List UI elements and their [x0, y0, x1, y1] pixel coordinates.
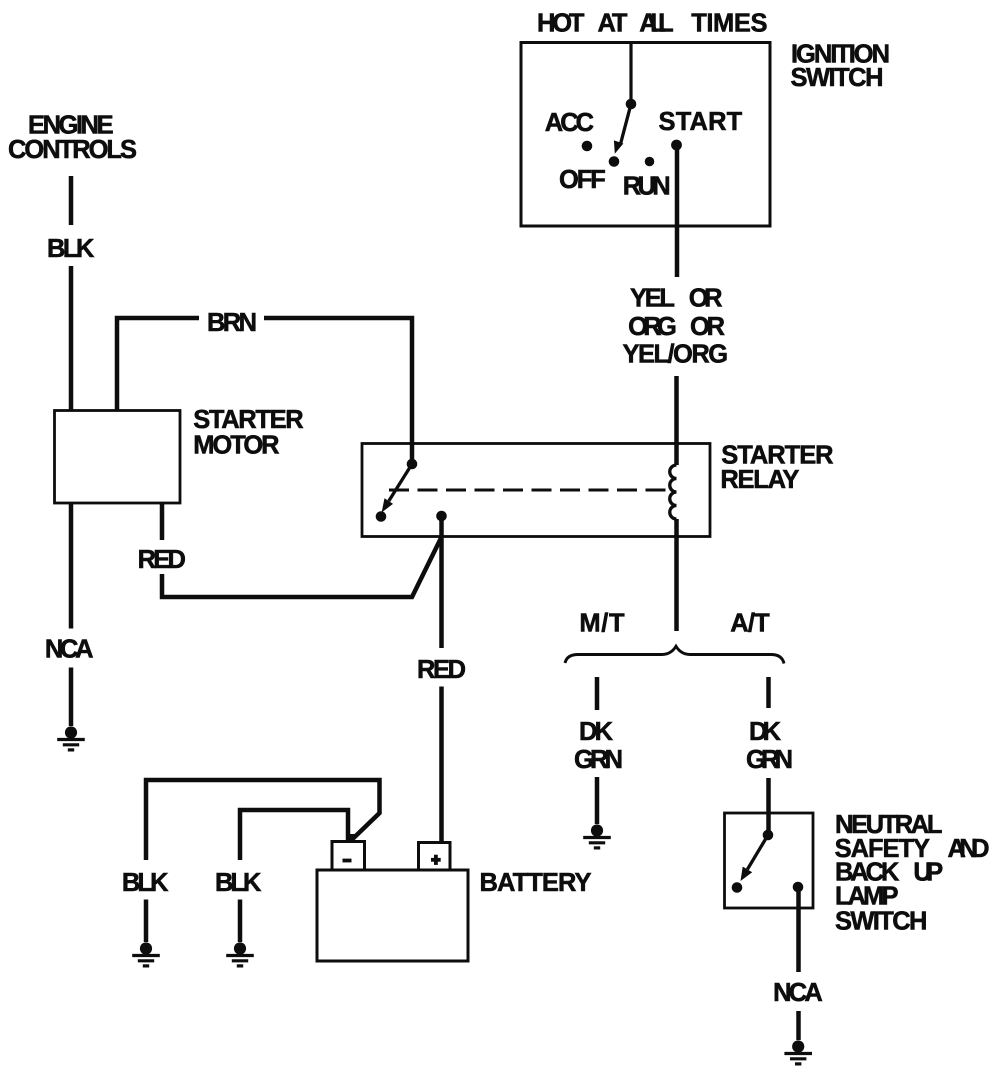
svg-text:ALL: ALL: [639, 10, 674, 38]
svg-text:RELAY: RELAY: [720, 466, 799, 494]
svg-text:BLK: BLK: [215, 869, 262, 897]
svg-text:A/T: A/T: [730, 609, 770, 637]
svg-text:RED: RED: [417, 656, 466, 684]
svg-text:OR: OR: [689, 284, 723, 312]
svg-text:OR: OR: [690, 313, 725, 341]
svg-text:ACC: ACC: [545, 109, 594, 137]
svg-text:DK: DK: [579, 718, 614, 746]
svg-text:NCA: NCA: [45, 636, 94, 664]
svg-text:RUN: RUN: [623, 172, 671, 200]
svg-text:HOT: HOT: [537, 10, 585, 38]
svg-text:DK: DK: [749, 718, 782, 746]
svg-text:AT: AT: [598, 10, 628, 38]
svg-text:CONTROLS: CONTROLS: [8, 136, 137, 164]
svg-text:TIMES: TIMES: [691, 10, 767, 38]
svg-text:NCA: NCA: [773, 979, 823, 1007]
svg-text:START: START: [659, 108, 743, 136]
svg-text:UP: UP: [913, 859, 943, 887]
svg-text:LAMP: LAMP: [835, 882, 899, 910]
svg-text:OFF: OFF: [559, 166, 606, 194]
svg-text:M/T: M/T: [579, 609, 625, 637]
svg-text:GRN: GRN: [746, 746, 793, 774]
svg-text:AND: AND: [948, 835, 990, 863]
svg-text:MOTOR: MOTOR: [193, 432, 279, 460]
svg-text:GRN: GRN: [574, 746, 623, 774]
svg-text:STARTER: STARTER: [193, 406, 304, 434]
svg-text:YEL/ORG: YEL/ORG: [623, 341, 729, 369]
svg-text:SWITCH: SWITCH: [791, 64, 884, 92]
svg-text:SWITCH: SWITCH: [835, 908, 927, 936]
svg-text:YEL: YEL: [630, 284, 675, 312]
svg-text:BATTERY: BATTERY: [480, 869, 592, 897]
svg-text:BLK: BLK: [47, 235, 95, 263]
svg-text:BRN: BRN: [207, 309, 257, 337]
svg-text:RED: RED: [138, 546, 186, 574]
svg-text:BLK: BLK: [122, 869, 169, 897]
svg-text:ORG: ORG: [628, 313, 677, 341]
